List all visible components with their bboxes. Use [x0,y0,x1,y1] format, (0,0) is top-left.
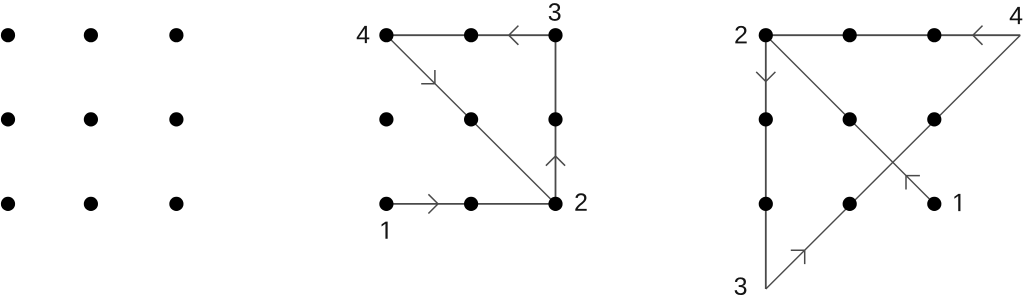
panel 3 dot r3c1 [759,197,773,211]
panel 2 dot r3c3 [548,197,562,211]
panel 3 line 4-end top [766,34,1021,36]
panel 2 arrow left on top line [509,26,519,45]
panel 2 arrow up on right line [546,156,565,166]
panel 1 dot r1c2 [84,28,98,42]
panel 3 dot r1c3 [927,28,941,42]
panel 1 dot r3c1 [1,197,15,211]
panel 2 dot r3c2 [464,197,478,211]
panel 3 line 2-3 left vertical [765,35,767,289]
panel 2 label 3 [549,3,561,21]
panel 3 dot r3c3 [927,197,941,211]
panel 3 dot r2c3 [927,112,941,126]
panel 3 label 4 [1010,7,1023,24]
panel 2 dot r2c3 [548,112,562,126]
panel 1 dot r2c1 [1,112,15,126]
panel 2 label 1 [382,222,388,239]
panel 2 dot r1c1 [379,28,393,42]
panel 2 line 2-3 right [555,35,557,204]
panel 3 label 3 [735,277,747,295]
panel 3 arrow down on left vertical [756,72,775,82]
panel 2 dot r1c3 [548,28,562,42]
panel 3 arrow left on top line [973,26,983,45]
panel 3 dot r1c2 [843,28,857,42]
panel 3 arrow up-left on diagonal 1-2 [906,176,920,190]
panel 3 dot r2c2 [843,112,857,126]
panel 2 label 4 [357,26,370,43]
panel 1 dot r1c1 [1,28,15,42]
panel 1 dot r1c3 [169,28,183,42]
panel 2 dot r3c1 [379,197,393,211]
panel 2 dot r1c2 [464,28,478,42]
panel 3 dot r3c2 [843,197,857,211]
panel 3 label 2 [735,26,746,43]
panel 2 line 3-4 top [386,34,555,36]
panel 2 arrow right on bottom line [428,194,438,213]
panel 2 line 4-2 diagonal [386,35,555,204]
panel 3 dot r2c1 [759,112,773,126]
panel 2 dot r2c2 [464,112,478,126]
panel 3 label 1 [954,194,960,211]
panel 1 dot r3c3 [169,197,183,211]
panel 3 line 3-4 diagonal [766,35,1021,289]
panel 1 dot r2c2 [84,112,98,126]
panel 3 arrow up-right on diagonal 3-4 [791,250,805,264]
panel 2 label 2 [575,193,586,210]
panel 1 dot r3c2 [84,197,98,211]
panel 3 dot r1c1 [759,28,773,42]
panel 2 line 1-2 bottom [386,203,555,205]
panel 1 dot r2c3 [169,112,183,126]
panel 2 arrow down-right on diagonal [421,70,435,84]
panel 3 line 1-2 diagonal [766,35,935,204]
panel 2 dot r2c1 [379,112,393,126]
